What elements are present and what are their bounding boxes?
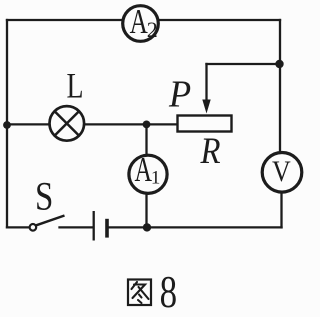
lamp L xyxy=(50,106,85,141)
caption character 图 (hand drawn) xyxy=(128,280,151,306)
arrowhead of rheostat slider xyxy=(202,100,210,114)
wire A1 bottom vertical xyxy=(145,194,147,227)
wire right vertical upper xyxy=(279,20,281,153)
wire V bottom vertical xyxy=(280,193,282,227)
rheostat R (rectangle body) xyxy=(178,116,232,132)
battery short plate xyxy=(105,219,109,238)
ammeter A2 xyxy=(123,2,159,42)
svg-text:R: R xyxy=(200,130,221,171)
node middle (A1 branch / middle wire junction) xyxy=(143,121,151,129)
svg-text:S: S xyxy=(35,173,53,218)
node left (middle wire / left wire junction) xyxy=(3,121,11,129)
svg-text:8: 8 xyxy=(160,266,177,312)
svg-text:L: L xyxy=(67,65,84,105)
svg-text:A: A xyxy=(130,2,148,41)
switch S : lever xyxy=(36,216,64,226)
wire A1 top vertical xyxy=(145,124,147,155)
wire rheostat slider branch horizontal xyxy=(207,63,281,65)
wire middle horizontal (lamp/rheostat branch) xyxy=(7,123,177,125)
node bottom (A1 bottom / bottom wire junction) xyxy=(143,223,151,231)
battery long plate xyxy=(93,211,95,241)
svg-text:A: A xyxy=(135,150,153,190)
wire bottom left segment xyxy=(7,226,30,228)
wire bottom battery-to-right segment xyxy=(109,226,282,228)
node right (slider branch / right wire junction) xyxy=(275,60,283,68)
svg-text:V: V xyxy=(272,155,291,188)
svg-text:2: 2 xyxy=(147,17,158,42)
svg-text:P: P xyxy=(168,74,191,116)
wire rheostat slider branch vertical xyxy=(205,64,207,101)
wire bottom switch-to-battery segment xyxy=(60,226,94,228)
svg-text:1: 1 xyxy=(151,167,161,188)
switch S : pivot circle xyxy=(30,224,37,231)
wire top horizontal xyxy=(7,19,280,21)
ammeter A1 xyxy=(129,150,167,194)
voltmeter V xyxy=(262,153,302,193)
wire left vertical xyxy=(6,20,8,227)
